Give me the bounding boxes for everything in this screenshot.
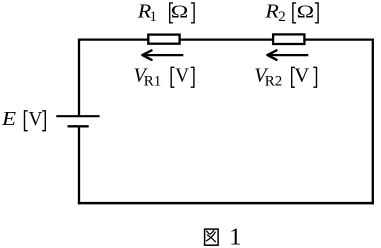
label R1 [ohm]	[137, 0, 194, 25]
battery E short plate	[68, 125, 89, 127]
svg-text:Ω: Ω	[297, 1, 315, 22]
resistor R1 body	[148, 35, 179, 44]
svg-text:R: R	[264, 0, 279, 22]
label E [V]	[1, 108, 45, 131]
label VR1 [V]	[134, 65, 194, 90]
svg-text:Ω: Ω	[171, 1, 189, 22]
wire left lower	[78, 126, 80, 204]
svg-text:1: 1	[229, 224, 241, 248]
svg-text:R1: R1	[144, 74, 162, 90]
wire right	[372, 39, 374, 205]
svg-text:2: 2	[278, 9, 286, 25]
label R2 [ohm]	[264, 0, 318, 25]
battery E long plate	[56, 115, 99, 117]
wire top	[78, 38, 374, 40]
resistor R2 body	[273, 34, 304, 44]
arrow VR1	[142, 50, 183, 59]
svg-text:V: V	[294, 65, 309, 87]
caption figure glyph (zu)	[205, 229, 219, 245]
label VR2 [V]	[254, 65, 316, 90]
svg-text:R2: R2	[265, 74, 283, 90]
svg-text:V: V	[175, 65, 189, 87]
svg-text:1: 1	[150, 9, 158, 25]
arrow VR2	[267, 50, 308, 59]
svg-text:E: E	[1, 108, 16, 130]
wire left upper	[78, 39, 80, 117]
svg-text:V: V	[29, 109, 43, 130]
wire bottom	[78, 202, 374, 205]
